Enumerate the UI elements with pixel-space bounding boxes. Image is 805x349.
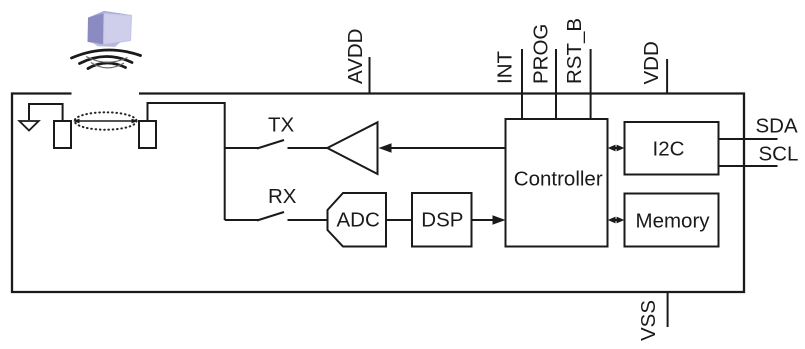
svg-text:SDA: SDA [756,115,798,138]
svg-text:RST_B: RST_B [563,18,586,84]
pin VSS [637,291,668,341]
svg-text:DSP: DSP [421,209,463,232]
sound wave arc 3 [88,63,126,69]
TX switch [225,140,327,149]
transducer left electrode [54,121,71,148]
svg-text:PROG: PROG [530,24,553,84]
double arrow controller-memory [608,217,625,224]
svg-text:AVDD: AVDD [344,29,367,84]
ADC [328,193,387,247]
double arrow controller-I2C [608,145,625,152]
RX switch [225,212,328,221]
DSP [412,193,472,247]
SDA line [719,115,798,140]
svg-text:VDD: VDD [640,41,663,84]
transducer right electrode [139,121,156,148]
svg-text:RX: RX [268,185,297,208]
pin VDD [640,41,667,94]
svg-text:SCL: SCL [759,143,799,166]
pin INT [494,49,523,119]
pin AVDD [344,29,370,94]
chip boundary [12,94,744,293]
wire DSP to controller with arrow [472,215,506,225]
wire ground to left electrode [29,104,63,120]
svg-text:VSS: VSS [637,300,660,341]
svg-text:TX: TX [268,114,295,137]
pin PROG [530,24,557,119]
svg-text:INT: INT [494,51,517,85]
ground [19,121,38,131]
piezo vibration double arrow [73,119,138,124]
echo thin arc 2 [91,63,124,68]
wire right electrode to switches [148,103,225,220]
piezo dotted ellipse [75,112,137,129]
memory block [625,194,719,247]
target object cube [88,11,132,47]
wire controller to amplifier with arrow [379,143,506,153]
SCL line [719,143,799,167]
pin RST_B [563,18,591,119]
controller U1 [506,119,608,247]
echo thin arc 1 [86,57,128,63]
svg-text:Memory: Memory [636,210,711,233]
svg-text:Controller: Controller [514,168,603,191]
svg-text:ADC: ADC [337,209,380,232]
wire ADC to DSP [386,219,412,221]
I2C block [625,122,719,175]
sound wave arc 2 [80,56,133,63]
sound wave arc 1 [72,50,141,58]
amplifier [327,122,377,174]
svg-text:I2C: I2C [653,138,685,161]
